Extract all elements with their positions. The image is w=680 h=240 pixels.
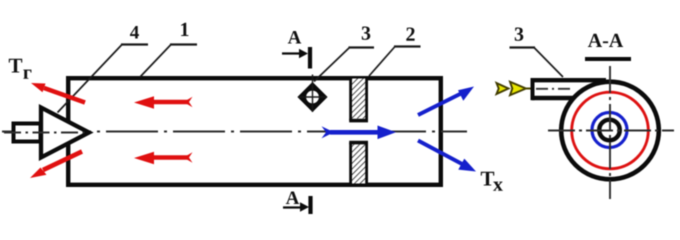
section view A-A : center orifice circle (599, 120, 620, 141)
leader line 1 (140, 45, 197, 78)
label 3 (inlet pipe) (515, 28, 524, 41)
cold flow arrow axial (blue, through orifice) (322, 126, 397, 140)
hot flow arrow upper-left (red, out of nozzle) (31, 83, 85, 103)
leader line 3 (inlet pipe) (510, 48, 564, 78)
section view A-A : hot vortex circle (red) (572, 92, 649, 169)
leader line 4 (58, 45, 149, 113)
label Tg (hot temperature) (9, 59, 32, 79)
leader line 2 (369, 47, 421, 77)
inlet air arrow (yellow) (497, 82, 531, 95)
diaphragm plate 2 (hatched) upper part (349, 79, 368, 121)
section mark A bottom (283, 192, 311, 215)
label 3 (362, 27, 371, 40)
throttle symbol 3 (diamond) (298, 75, 327, 113)
cold flow arrow upper-right (blue) (418, 87, 474, 116)
tube body 1 (68, 78, 441, 185)
section view A-A : outer tube circle (561, 82, 659, 180)
nozzle 4 triangle (41, 108, 89, 158)
label 2 (406, 28, 414, 41)
section mark A top (282, 31, 310, 69)
section view A-A : cold core circle (blue) (592, 113, 627, 148)
label A-A (585, 34, 631, 59)
leader line 3 (diaphragm) (314, 48, 374, 82)
hot flow arrow upper-mid (red, leftwards) (134, 96, 193, 108)
main centerline (2, 130, 467, 132)
section view A-A : inlet pipe 3 (532, 78, 606, 100)
label Tx (cold temperature) (481, 172, 503, 191)
section view A-A : horizontal crosshair (548, 130, 674, 132)
hot flow arrow lower-left (red, out of nozzle) (30, 152, 82, 179)
cold flow arrow lower-right (blue) (418, 141, 476, 172)
diaphragm plate 2 (hatched) lower part (349, 143, 368, 185)
section view A-A : vertical crosshair (609, 66, 611, 199)
hot flow arrow lower-mid (red, leftwards) (134, 152, 193, 164)
nozzle 4 inlet stub (4, 124, 84, 142)
label 1 (181, 23, 188, 36)
label 4 (130, 26, 139, 39)
